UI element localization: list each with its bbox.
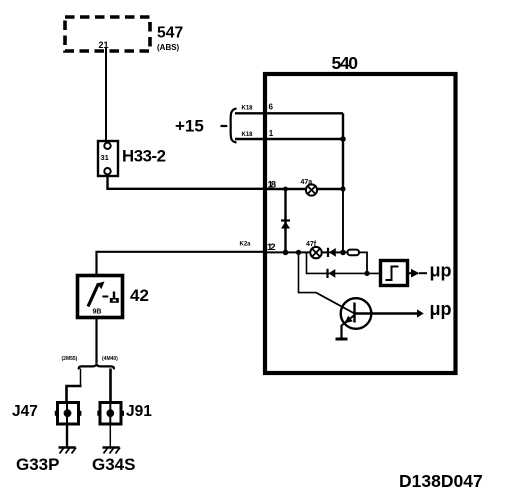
wire pin 12 line (47f line) — [265, 251, 349, 253]
svg-text:(ABS): (ABS) — [157, 43, 180, 52]
arrow to uP 2 — [417, 309, 424, 317]
svg-text:21: 21 — [99, 40, 109, 50]
junction at schmitt input — [364, 271, 369, 276]
wire branch to transistor base — [299, 252, 317, 292]
connector J91 — [97, 403, 124, 425]
svg-text:547: 547 — [157, 25, 183, 42]
svg-text:6: 6 — [269, 103, 274, 112]
wire vertical bus from pin6 down — [342, 113, 344, 189]
ground bar of transistor — [336, 338, 348, 341]
wire sender 42 down — [95, 318, 97, 364]
transistor Q1 — [316, 293, 371, 329]
ground G33P symbol — [59, 448, 77, 454]
wire emitter down — [340, 325, 342, 339]
resistor R1 — [348, 250, 360, 256]
svg-text:+15: +15 — [175, 117, 204, 136]
svg-text:(4M40): (4M40) — [102, 356, 118, 362]
wire collector to uP 2 — [355, 312, 418, 315]
wire K18 to pin 1 — [235, 138, 343, 140]
sender unit 42 — [78, 276, 123, 318]
wire resistor to schmitt input corner — [359, 252, 367, 273]
brace ( for +15 feed — [231, 109, 237, 143]
svg-text:K18: K18 — [242, 132, 254, 138]
dash before brace — [221, 125, 228, 127]
svg-text:μp: μp — [430, 299, 452, 319]
connector J47 — [55, 403, 82, 425]
svg-text:G33P: G33P — [16, 455, 59, 474]
svg-text:47f: 47f — [306, 241, 317, 248]
wire right branch to J91 — [109, 369, 112, 403]
wire J91 to ground — [109, 424, 111, 448]
svg-text:(2M55): (2M55) — [62, 356, 78, 362]
schmitt trigger U1 — [381, 261, 408, 286]
svg-text:G34S: G34S — [92, 455, 135, 474]
svg-text:47a: 47a — [301, 179, 313, 186]
svg-text:540: 540 — [332, 53, 359, 73]
svg-text:42: 42 — [130, 286, 149, 305]
svg-text:J47: J47 — [12, 403, 38, 420]
connector H33-2 — [98, 141, 118, 176]
svg-text:K18: K18 — [242, 106, 254, 112]
svg-text:1: 1 — [269, 129, 274, 138]
svg-text:31: 31 — [101, 153, 109, 162]
wire branch to schmitt line — [307, 252, 381, 273]
junction pin1 wire / bus — [340, 136, 346, 142]
svg-text:μp: μp — [430, 261, 452, 281]
svg-text:D138D047: D138D047 — [399, 471, 483, 491]
diode D2 on 47f line (pointing left) — [328, 248, 336, 257]
wire pin 18 line to lamp 47a — [265, 188, 343, 191]
junction diode branch bottom — [283, 250, 289, 256]
wire H33-2 to pin 18 of 540 — [108, 174, 266, 189]
indicator lamp 47f — [310, 247, 321, 258]
svg-text:9B: 9B — [93, 309, 102, 316]
wire diode branch vertical x285 — [284, 189, 286, 252]
ECU box 540 — [265, 74, 456, 373]
svg-text:K2a: K2a — [240, 242, 252, 248]
wire J47 to ground — [66, 424, 68, 448]
junction bus / 47f line — [340, 250, 346, 256]
diode D1 on branch (pointing up) — [281, 221, 290, 229]
indicator lamp 47a — [306, 184, 317, 195]
wire 547 pin21 to H33-2 — [105, 47, 107, 142]
ground G34S symbol — [103, 448, 121, 454]
svg-text:12: 12 — [267, 242, 276, 253]
svg-text:J91: J91 — [126, 403, 152, 420]
junction 47a line / bus — [340, 186, 345, 191]
wire pin12 to sender 42 — [97, 252, 266, 276]
diode D3 on schmitt line (pointing left) — [328, 269, 336, 278]
splice brace — [79, 363, 114, 369]
junction base branch — [296, 250, 301, 255]
svg-text:H33-2: H33-2 — [122, 147, 166, 166]
wire left branch to J47 — [80, 369, 82, 387]
connector box 547 (ABS control module, dashed) — [65, 17, 150, 51]
output arrow to uP 1 — [408, 269, 428, 278]
wire K18 to pin 6 — [235, 112, 343, 114]
junction diode branch top — [283, 187, 288, 192]
